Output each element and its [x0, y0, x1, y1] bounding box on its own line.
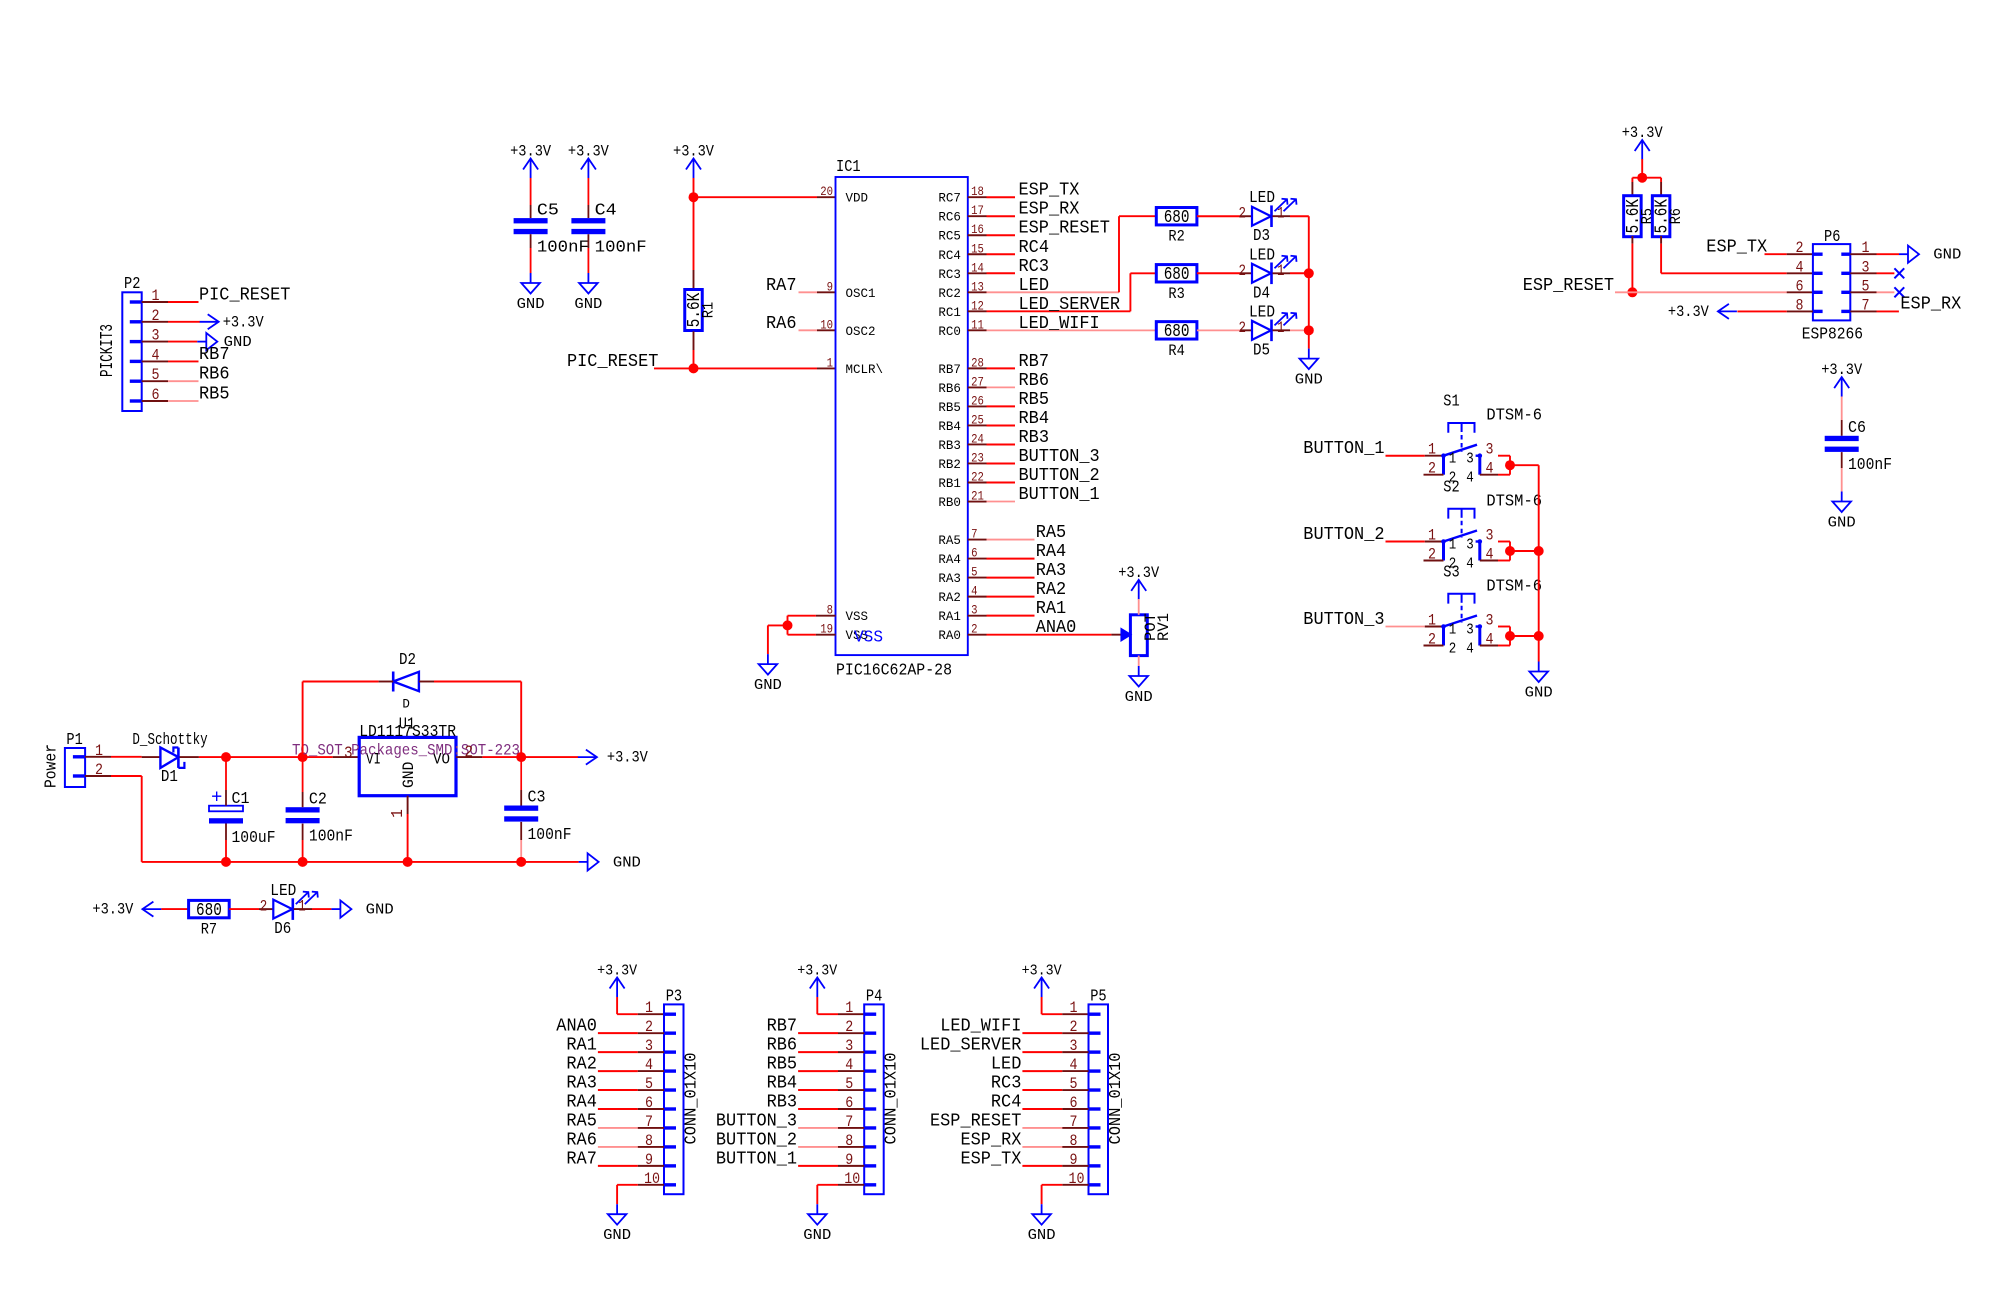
svg-text:2: 2 — [1428, 631, 1436, 649]
GND power symbol below C6 — [1828, 492, 1856, 532]
svg-text:LED: LED — [1249, 303, 1275, 322]
svg-text:RC3: RC3 — [938, 267, 961, 282]
connector P4 CONN_01X10 — [844, 988, 902, 1195]
svg-text:S2: S2 — [1443, 479, 1459, 498]
+3.3V power symbol above RV1 — [1118, 564, 1159, 600]
svg-text:RA3: RA3 — [938, 571, 961, 586]
svg-text:ESP_TX: ESP_TX — [961, 1149, 1022, 1169]
svg-text:3: 3 — [1486, 527, 1494, 545]
svg-text:RA1: RA1 — [938, 609, 961, 624]
wire P3 pin 10 to GND — [617, 1185, 664, 1204]
svg-text:RB4: RB4 — [767, 1074, 798, 1094]
wire/label RC3 to P5 pin 5 — [991, 1074, 1089, 1094]
svg-text:RC4: RC4 — [1019, 238, 1050, 258]
diode D1 D_Schottky — [132, 731, 207, 787]
GND bus vertical for D3-D5 — [1308, 216, 1310, 348]
pin P2-1 wire PIC_RESET — [142, 286, 291, 306]
GND power symbol below P4 — [803, 1204, 831, 1244]
svg-text:+3.3V: +3.3V — [92, 901, 133, 919]
wire LED_WIFI net from RC0 — [987, 314, 1157, 334]
svg-text:VDD: VDD — [846, 191, 869, 206]
wire/label RA5 — [987, 523, 1067, 543]
svg-text:2: 2 — [465, 744, 474, 763]
svg-text:2: 2 — [1239, 319, 1247, 337]
svg-text:2: 2 — [1428, 546, 1436, 564]
svg-text:BUTTON_1: BUTTON_1 — [716, 1149, 797, 1169]
svg-text:3: 3 — [1486, 612, 1494, 630]
wire C6 to GND — [1841, 452, 1843, 491]
wire/label RA2 to P3 pin 4 — [566, 1055, 664, 1075]
svg-text:LED_WIFI: LED_WIFI — [940, 1017, 1021, 1037]
wire BUTTON_2 to S2 — [1386, 541, 1442, 543]
wire/label ESP_RESET — [987, 219, 1111, 239]
svg-text:ESP_RX: ESP_RX — [1019, 200, 1080, 220]
capacitor C4 100nF — [571, 201, 646, 257]
resistor R6 5.6K — [1652, 196, 1685, 237]
wire P1 pin2 to GND rail — [85, 776, 142, 862]
svg-text:MCLR\: MCLR\ — [846, 362, 884, 377]
wire/label BUTTON_1 — [987, 485, 1100, 505]
svg-text:ANA0: ANA0 — [556, 1017, 597, 1037]
wire D3 to GND bus — [1273, 215, 1309, 217]
junction S2 — [1505, 546, 1515, 556]
wire LED net from RC2 — [987, 216, 1157, 296]
wire/label RA1 — [987, 599, 1067, 619]
svg-text:GND: GND — [754, 677, 782, 694]
svg-text:RB3: RB3 — [938, 438, 961, 453]
svg-text:RC6: RC6 — [938, 210, 961, 225]
wire R7 to D6 — [229, 908, 273, 910]
svg-text:4: 4 — [1796, 258, 1804, 276]
svg-text:1: 1 — [1428, 441, 1436, 459]
svg-text:2: 2 — [1796, 239, 1804, 257]
svg-text:RV1: RV1 — [1155, 613, 1173, 641]
svg-text:BUTTON_2: BUTTON_2 — [716, 1130, 797, 1150]
svg-text:RB5: RB5 — [199, 385, 230, 405]
svg-text:RC4: RC4 — [991, 1093, 1022, 1113]
GND power symbol below P3 — [603, 1204, 631, 1244]
+3.3V power symbol above R5/R6 — [1622, 124, 1663, 160]
GND power flag P2-3 — [197, 333, 251, 351]
wire P6 pin 8 to +3.3V flag — [1737, 310, 1813, 312]
wire/label RA3 — [987, 561, 1067, 581]
wire/label ESP_RX — [987, 200, 1080, 220]
svg-text:ESP_RX: ESP_RX — [961, 1130, 1022, 1150]
pin P2-2 wire +3.3V — [142, 321, 200, 323]
svg-text:2: 2 — [260, 898, 268, 916]
svg-text:RB6: RB6 — [1019, 371, 1050, 391]
svg-text:100nF: 100nF — [537, 238, 589, 257]
pin P2-5 wire RB6 — [142, 365, 230, 385]
wire/label RB6 to P4 pin 3 — [767, 1036, 865, 1056]
svg-text:6: 6 — [1796, 277, 1804, 295]
wire S1 pins 3-4 to bus — [1498, 456, 1539, 475]
connector P5 CONN_01X10 — [1069, 988, 1127, 1195]
wire/label BUTTON_3 — [987, 447, 1100, 467]
svg-text:2: 2 — [1428, 460, 1436, 478]
svg-text:RB5: RB5 — [938, 400, 961, 415]
wire R6 to P6 pin 4 — [1661, 236, 1813, 273]
svg-text:RB6: RB6 — [938, 381, 961, 396]
wire junction to R1 — [693, 197, 695, 288]
svg-text:C3: C3 — [528, 789, 546, 808]
svg-text:1: 1 — [1449, 537, 1457, 554]
svg-text:RC0: RC0 — [938, 324, 961, 339]
wire +3.3V to C4 — [587, 178, 589, 218]
svg-text:10: 10 — [820, 317, 833, 332]
connector P6 ESP8266 — [1796, 228, 1870, 345]
svg-text:CONN_01X10: CONN_01X10 — [883, 1053, 902, 1145]
wire +3.3V to P5 pin 1 — [1042, 997, 1089, 1014]
GND power flag at P6 pin 1 — [1899, 246, 1961, 264]
svg-text:1: 1 — [645, 999, 653, 1017]
wire D4 to GND bus — [1273, 272, 1309, 274]
svg-text:RB2: RB2 — [938, 457, 961, 472]
wire C1 stems — [225, 757, 227, 862]
svg-text:LED: LED — [1249, 189, 1275, 208]
svg-text:100nF: 100nF — [595, 238, 647, 257]
wire to U1 VI — [303, 756, 360, 758]
svg-text:R2: R2 — [1168, 228, 1184, 246]
wire/label ANA0 to P3 pin 2 — [556, 1017, 664, 1037]
wire U1 VO to +3.3V junction — [456, 756, 521, 758]
svg-text:1: 1 — [845, 999, 853, 1017]
wire U1 GND pin down — [407, 796, 409, 862]
svg-text:RB0: RB0 — [938, 495, 961, 510]
GND power symbol below C4 — [574, 273, 602, 313]
svg-text:BUTTON_1: BUTTON_1 — [1303, 439, 1384, 459]
label ESP_TX and wire to P6 pin 2 — [1706, 238, 1813, 258]
svg-text:RB5: RB5 — [1019, 390, 1050, 410]
svg-text:3: 3 — [1466, 451, 1474, 468]
wire D2 left leg — [303, 682, 394, 758]
svg-text:D3: D3 — [1253, 227, 1270, 246]
svg-text:2: 2 — [1239, 262, 1247, 280]
+3.3V power symbol above P5 — [1022, 963, 1062, 998]
resistor R2 680 — [1156, 208, 1197, 246]
svg-text:P6: P6 — [1824, 228, 1840, 247]
svg-text:RA5: RA5 — [938, 533, 961, 548]
wire D2 right leg — [419, 682, 521, 758]
svg-text:RB5: RB5 — [767, 1055, 798, 1075]
capacitor C1 100uF polarized — [209, 787, 276, 849]
junction C2/D2 top — [298, 752, 308, 762]
svg-text:RA7: RA7 — [766, 276, 797, 296]
label RA6 and wire to OSC2 — [766, 314, 836, 334]
IC1 right pins — [968, 197, 987, 634]
+3.3V power flag output — [578, 749, 648, 767]
capacitor C3 100nF — [504, 789, 571, 845]
svg-text:GND: GND — [1028, 1227, 1056, 1244]
svg-text:R1: R1 — [700, 302, 718, 318]
wire/label RB3 — [987, 428, 1050, 448]
label BUTTON_2 — [1303, 525, 1384, 545]
wire S2 pins 3-4 to bus — [1498, 542, 1539, 561]
svg-text:3: 3 — [344, 745, 353, 764]
wire/label LED_WIFI to P5 pin 2 — [940, 1017, 1088, 1037]
svg-text:RC2: RC2 — [938, 286, 961, 301]
svg-text:LED: LED — [991, 1055, 1022, 1075]
svg-text:VSS: VSS — [846, 609, 869, 624]
junction D4/bus — [1304, 268, 1314, 278]
wire D5 to GND bus — [1273, 329, 1309, 331]
svg-text:100uF: 100uF — [232, 829, 276, 848]
svg-text:P5: P5 — [1090, 988, 1106, 1007]
GND power symbol below C5 — [517, 273, 545, 313]
svg-text:GND: GND — [366, 902, 394, 919]
svg-text:C4: C4 — [595, 201, 617, 220]
wire/label RA3 to P3 pin 5 — [566, 1074, 664, 1094]
no-connect X at P6 pin 5 — [1894, 287, 1904, 297]
svg-text:RA6: RA6 — [566, 1130, 597, 1150]
junction R1/PIC_RESET — [689, 363, 699, 373]
wire +3.3V down to junction — [693, 178, 695, 197]
connector P1 Power — [42, 731, 103, 788]
diode D2 bypass — [393, 651, 419, 712]
junction S3/bus — [1534, 631, 1544, 641]
potentiometer RV1 POT — [1121, 613, 1173, 656]
svg-text:RC3: RC3 — [991, 1074, 1022, 1094]
wire LED_SERVER net from RC1 — [987, 273, 1157, 315]
svg-text:BUTTON_3: BUTTON_3 — [1303, 610, 1384, 630]
svg-text:GND: GND — [517, 296, 545, 313]
+3.3V power flag at P6 pin 8 — [1668, 303, 1737, 321]
wire R3 to D4 — [1197, 272, 1252, 274]
junction C1 top — [221, 752, 231, 762]
wire BUTTON_1 to S1 — [1386, 455, 1442, 457]
svg-text:680: 680 — [1164, 265, 1190, 285]
svg-text:OSC1: OSC1 — [846, 286, 876, 301]
svg-text:4: 4 — [1486, 460, 1494, 478]
svg-text:LD1117S33TR: LD1117S33TR — [359, 723, 456, 742]
wire VDD to IC1 pin 20 — [694, 196, 836, 198]
svg-text:1: 1 — [1449, 451, 1457, 468]
wire/label BUTTON_2 to P4 pin 8 — [716, 1130, 864, 1150]
svg-text:VSS: VSS — [854, 629, 883, 648]
svg-text:D5: D5 — [1253, 341, 1270, 360]
wire C4 to GND — [587, 234, 589, 273]
GND power flag rail — [579, 853, 641, 871]
svg-text:ESP_TX: ESP_TX — [1706, 238, 1767, 258]
svg-text:4: 4 — [1486, 546, 1494, 564]
svg-text:S3: S3 — [1443, 564, 1459, 583]
wire/label BUTTON_3 to P4 pin 7 — [716, 1111, 864, 1131]
label BUTTON_3 — [1303, 610, 1384, 630]
wire/label RB4 — [987, 409, 1050, 429]
svg-text:3: 3 — [1466, 537, 1474, 554]
resistor R1 5.6K — [685, 290, 718, 331]
wire/label ESP_RESET to P5 pin 7 — [930, 1111, 1089, 1131]
wire/label RA2 — [987, 580, 1067, 600]
svg-text:RB6: RB6 — [199, 365, 230, 385]
resistor R5 5.6K — [1624, 196, 1657, 237]
svg-text:DTSM-6: DTSM-6 — [1486, 578, 1542, 597]
svg-text:GND: GND — [803, 1227, 831, 1244]
wire P1 pin1 to D1 — [85, 756, 160, 758]
IC1 left pin names and numbers — [820, 184, 883, 647]
junction U1 GND/rail — [403, 857, 413, 867]
svg-text:P3: P3 — [666, 988, 682, 1007]
wire R4 to D5 — [1197, 329, 1252, 331]
svg-text:4: 4 — [1466, 556, 1474, 573]
resistor R7 680 — [189, 900, 230, 938]
wire/label RB5 — [987, 390, 1050, 410]
resistor R4 680 — [1156, 322, 1197, 360]
svg-text:100nF: 100nF — [309, 828, 353, 847]
wire/label RC3 — [987, 257, 1050, 277]
svg-text:CONN_01X10: CONN_01X10 — [683, 1053, 702, 1145]
GND bus for switches — [1538, 465, 1540, 661]
svg-text:RA4: RA4 — [566, 1093, 597, 1113]
svg-text:1: 1 — [1277, 262, 1285, 280]
wire C2 stems — [302, 757, 304, 862]
junction C3 bottom — [516, 857, 526, 867]
svg-text:R7: R7 — [201, 921, 217, 939]
wire +3.3V to R7 — [161, 908, 188, 910]
wire S3 pins 3-4 to bus — [1498, 627, 1539, 646]
svg-text:RB6: RB6 — [767, 1036, 798, 1056]
wire ESP_RESET to P6 pin 6 — [1615, 291, 1813, 293]
+3.3V power flag at R7 — [92, 901, 161, 919]
svg-text:RA2: RA2 — [1036, 580, 1067, 600]
wire C3 stems — [520, 757, 522, 862]
switch S2 DTSM-6 — [1424, 479, 1543, 573]
wire R5 to ESP_RESET — [1631, 236, 1633, 292]
wire/label RB6 — [987, 371, 1050, 391]
+3.3V power symbol above C6 — [1821, 361, 1862, 397]
svg-text:1: 1 — [1428, 612, 1436, 630]
GND power symbol below RV1 — [1125, 666, 1153, 706]
wire/label RA5 to P3 pin 7 — [566, 1111, 664, 1131]
pin P2-6 wire RB5 — [142, 385, 230, 405]
label BUTTON_1 — [1303, 439, 1384, 459]
svg-text:RA4: RA4 — [938, 552, 961, 567]
svg-text:LED: LED — [1019, 276, 1050, 296]
svg-text:RB4: RB4 — [938, 419, 961, 434]
svg-text:ESP_RX: ESP_RX — [1900, 294, 1961, 314]
svg-text:D1: D1 — [161, 768, 178, 787]
wire PIC_RESET to IC1 MCLR — [654, 367, 836, 369]
svg-text:RC7: RC7 — [938, 191, 961, 206]
junction S2/bus — [1534, 546, 1544, 556]
svg-text:DTSM-6: DTSM-6 — [1486, 407, 1542, 426]
resistor R3 680 — [1156, 265, 1197, 303]
svg-text:1: 1 — [1277, 205, 1285, 223]
wire/label BUTTON_1 to P4 pin 9 — [716, 1149, 864, 1169]
svg-text:20: 20 — [820, 184, 833, 199]
svg-text:ESP_TX: ESP_TX — [1019, 181, 1080, 201]
wire +3.3V to P3 pin 1 — [617, 997, 664, 1014]
svg-text:RB3: RB3 — [1019, 428, 1050, 448]
svg-text:RA2: RA2 — [566, 1055, 597, 1075]
wire to R6 top — [1642, 178, 1661, 197]
label RA7 and wire to OSC1 — [766, 276, 836, 296]
GND rail — [142, 861, 579, 863]
wire to +3.3V flag — [521, 756, 578, 758]
svg-text:GND: GND — [1125, 689, 1153, 706]
junction D5/bus — [1304, 325, 1314, 335]
svg-text:LED: LED — [270, 882, 296, 901]
svg-text:GND: GND — [1933, 247, 1961, 264]
svg-text:S1: S1 — [1443, 393, 1459, 412]
wire/label ESP_TX — [987, 181, 1080, 201]
junction VSS — [783, 620, 793, 630]
svg-text:RB7: RB7 — [199, 345, 230, 365]
GND power symbol below VSS — [754, 654, 782, 694]
svg-text:RB7: RB7 — [938, 362, 961, 377]
wire/label BUTTON_2 — [987, 466, 1100, 486]
svg-text:OSC2: OSC2 — [846, 324, 876, 339]
label ESP_RESET — [1523, 276, 1615, 296]
svg-text:RA2: RA2 — [938, 590, 961, 605]
svg-text:RC4: RC4 — [938, 248, 961, 263]
svg-text:3: 3 — [1466, 622, 1474, 639]
wire/label ESP_TX to P5 pin 9 — [961, 1149, 1089, 1169]
wire P5 pin 10 to GND — [1042, 1185, 1089, 1204]
wire D1 to C1 junction — [180, 756, 226, 758]
wire/label ESP_RX to P5 pin 8 — [961, 1130, 1089, 1150]
svg-text:RB7: RB7 — [767, 1017, 798, 1037]
GND power symbol below P5 — [1028, 1204, 1056, 1244]
svg-text:Power: Power — [42, 744, 61, 788]
wire P4 pin 10 to GND — [817, 1185, 864, 1204]
svg-text:RC3: RC3 — [1019, 257, 1050, 277]
LED D5 — [1239, 303, 1297, 360]
connector P2 PICKIT3 — [98, 275, 160, 411]
wire +3.3V to C6 — [1841, 397, 1843, 436]
footprint text TO_SOT Packages_SMD SOT-223 — [292, 742, 520, 760]
svg-text:RA3: RA3 — [1036, 561, 1067, 581]
svg-text:RA6: RA6 — [766, 314, 797, 334]
wire/label RB4 to P4 pin 5 — [767, 1074, 865, 1094]
switch S1 DTSM-6 — [1424, 393, 1543, 487]
svg-text:PIC16C62AP-28: PIC16C62AP-28 — [836, 662, 952, 681]
wire VSS pins to GND — [768, 616, 836, 654]
svg-text:100nF: 100nF — [528, 826, 572, 845]
+3.3V power symbol above P3 — [597, 963, 637, 998]
LED D6 — [260, 882, 318, 939]
junction S3 — [1505, 631, 1515, 641]
svg-text:+3.3V: +3.3V — [607, 749, 648, 767]
svg-text:PIC_RESET: PIC_RESET — [567, 352, 659, 372]
svg-text:2: 2 — [1239, 205, 1247, 223]
svg-text:ESP_RESET: ESP_RESET — [930, 1111, 1022, 1131]
svg-text:BUTTON_2: BUTTON_2 — [1303, 525, 1384, 545]
wire P6 pin 1 to GND flag — [1850, 253, 1899, 255]
wire/label RB3 to P4 pin 6 — [767, 1093, 865, 1113]
LED D4 — [1239, 246, 1297, 303]
svg-text:RA3: RA3 — [566, 1074, 597, 1094]
svg-text:RB7: RB7 — [1019, 352, 1050, 372]
svg-text:RA0: RA0 — [938, 628, 961, 643]
wire/label RC4 to P5 pin 6 — [991, 1093, 1089, 1113]
+3.3V power symbol above P4 — [797, 963, 837, 998]
wire P6 pin 5 no-connect — [1850, 291, 1894, 293]
svg-text:P2: P2 — [124, 275, 140, 294]
svg-text:BUTTON_1: BUTTON_1 — [1019, 485, 1100, 505]
svg-text:GND: GND — [1828, 515, 1856, 532]
svg-text:GND: GND — [613, 854, 641, 871]
junction ESP_RESET — [1627, 287, 1637, 297]
wire +3.3V to C5 — [530, 178, 532, 218]
svg-text:PIC_RESET: PIC_RESET — [199, 286, 291, 306]
wire P6 pin 3 no-connect — [1850, 272, 1894, 274]
svg-text:RA5: RA5 — [566, 1111, 597, 1131]
capacitor C6 100nF — [1825, 419, 1892, 475]
svg-text:GND: GND — [1295, 372, 1323, 389]
junction S1 — [1505, 460, 1515, 470]
svg-text:680: 680 — [1164, 208, 1190, 228]
